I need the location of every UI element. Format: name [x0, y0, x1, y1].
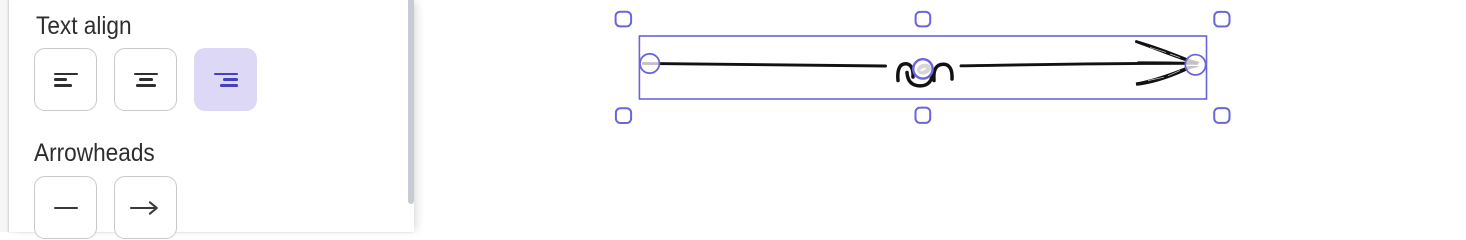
midpoint circle	[913, 59, 932, 78]
arrow shaft left segment	[644, 63, 886, 66]
arrowhead upper barb	[1135, 40, 1199, 62]
icon: dash	[54, 207, 78, 209]
label: Text align	[36, 12, 132, 41]
button: align left	[34, 48, 97, 111]
arrowhead lower barb	[1136, 66, 1198, 85]
icon: align-right bars	[214, 73, 239, 75]
icon: align-center bars	[134, 73, 159, 75]
button: align right (selected)	[194, 48, 257, 111]
icon: arrow right	[126, 194, 164, 222]
arrow squiggle right hump	[934, 64, 952, 80]
endpoint circle left	[640, 54, 659, 73]
icon: align-left bars	[54, 73, 79, 75]
arrow shaft right segment	[961, 63, 1197, 66]
handle top-right	[1214, 12, 1229, 27]
handle top-left	[616, 12, 632, 27]
arrow shaft double line near head	[1138, 61, 1196, 64]
label: Arrowheads	[34, 139, 155, 168]
midpoint circle inner blob	[916, 62, 932, 76]
handle bottom-right	[1214, 108, 1229, 123]
arrow squiggle under dip	[907, 73, 932, 86]
handle bottom-left	[616, 108, 631, 123]
canvas left gutter strip	[0, 0, 9, 232]
button: align center	[114, 48, 177, 111]
handle top-mid	[916, 12, 931, 27]
selection bounding box	[639, 36, 1206, 99]
properties panel island	[9, 0, 414, 232]
canvas scene svg	[560, 0, 1280, 232]
endpoint circle right	[1185, 55, 1205, 75]
button: arrowhead arrow	[114, 176, 177, 239]
button: arrowhead none	[34, 176, 97, 239]
panel scrollbar thumb	[408, 0, 414, 204]
arrow squiggle left hump	[898, 64, 913, 81]
handle bottom-mid	[916, 108, 931, 123]
